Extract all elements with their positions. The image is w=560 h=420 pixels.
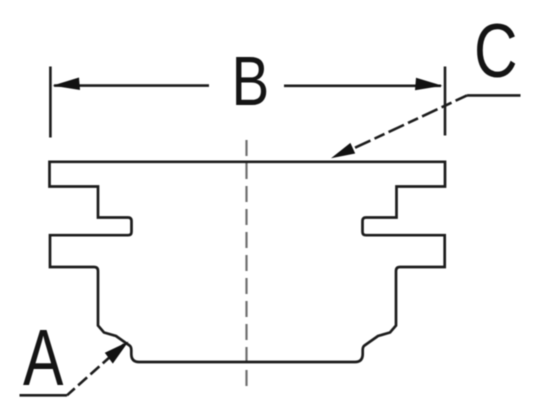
leader C diagonal dashed [341,95,467,154]
leader A tail [20,394,68,397]
svg-text:C: C [474,9,518,94]
leader A diagonal dashed [67,344,124,395]
label A [23,314,64,403]
part outline [50,162,446,362]
svg-text:A: A [23,314,64,403]
label C [474,9,518,94]
centerline [245,140,247,388]
dimension B extension line left [49,67,52,138]
dimension B line right segment [284,85,441,88]
dimension B line left segment [54,84,209,87]
dimension B arrowhead left [53,78,81,91]
svg-text:B: B [232,44,270,121]
dimension B arrowhead right [415,78,443,91]
dimension B extension line right [444,67,447,136]
leader C tail [467,94,521,97]
leader A arrowhead [105,342,129,364]
label B [232,44,270,121]
leader C arrowhead [331,143,355,158]
